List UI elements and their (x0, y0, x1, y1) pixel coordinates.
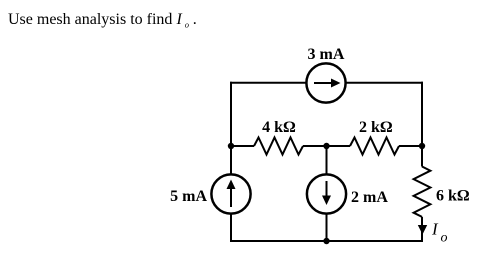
svg-text:o: o (441, 231, 448, 246)
svg-text:o: o (185, 19, 189, 29)
svg-text:4 kΩ: 4 kΩ (262, 119, 296, 136)
svg-text:I: I (176, 11, 183, 28)
svg-text:3 mA: 3 mA (308, 46, 345, 63)
svg-text:Use mesh analysis to find: Use mesh analysis to find (8, 11, 172, 28)
svg-text:6 kΩ: 6 kΩ (436, 188, 470, 205)
svg-text:2 mA: 2 mA (351, 189, 388, 206)
svg-text:.: . (193, 11, 197, 28)
svg-text:2 kΩ: 2 kΩ (359, 119, 393, 136)
svg-text:5 mA: 5 mA (170, 188, 207, 205)
